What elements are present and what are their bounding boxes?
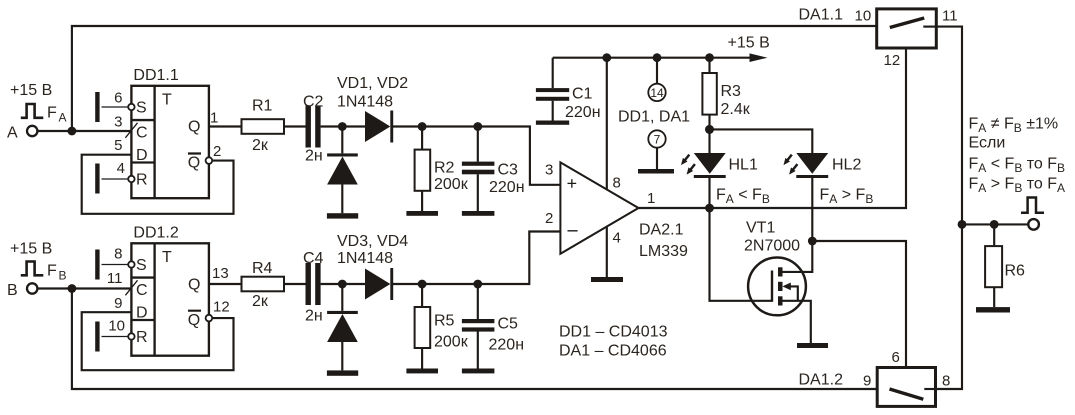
svg-text:S: S [136, 100, 147, 117]
svg-text:11: 11 [107, 270, 123, 287]
svg-text:Q: Q [188, 119, 200, 136]
svg-text:13: 13 [212, 265, 229, 282]
svg-text:10: 10 [108, 318, 125, 335]
svg-text:220н: 220н [565, 104, 601, 121]
svg-text:220н: 220н [489, 179, 525, 196]
svg-text:9: 9 [114, 295, 122, 312]
svg-text:3: 3 [545, 162, 553, 179]
svg-text:2к: 2к [252, 293, 269, 310]
svg-text:VT1: VT1 [746, 220, 775, 237]
svg-text:2н: 2н [305, 148, 323, 165]
svg-text:DD1.1: DD1.1 [133, 67, 178, 84]
svg-text:3: 3 [114, 114, 122, 131]
svg-text:T: T [162, 92, 172, 109]
svg-text:R2: R2 [434, 160, 455, 177]
svg-text:4: 4 [117, 160, 125, 177]
svg-text:9: 9 [863, 373, 871, 390]
svg-text:10: 10 [855, 8, 872, 25]
svg-text:R5: R5 [434, 313, 455, 330]
svg-text:B: B [7, 282, 18, 299]
svg-text:DA2.1: DA2.1 [639, 222, 684, 239]
svg-text:HL1: HL1 [729, 157, 758, 174]
svg-text:2: 2 [213, 143, 221, 160]
svg-text:DD1 – CD4013: DD1 – CD4013 [559, 324, 668, 341]
svg-text:S: S [136, 257, 147, 274]
svg-text:8: 8 [942, 373, 950, 390]
svg-text:+15 В: +15 В [728, 35, 770, 52]
svg-text:6: 6 [892, 349, 900, 366]
svg-text:VD1, VD2: VD1, VD2 [337, 75, 408, 92]
svg-text:R: R [136, 172, 148, 189]
svg-text:A: A [59, 111, 67, 125]
svg-text:Q: Q [188, 312, 200, 329]
svg-text:4: 4 [613, 230, 621, 247]
svg-text:+15 В: +15 В [10, 241, 52, 258]
svg-text:2к: 2к [252, 137, 269, 154]
svg-text:8: 8 [613, 175, 621, 192]
svg-text:D: D [136, 305, 148, 322]
svg-text:R4: R4 [252, 260, 273, 277]
svg-text:C3: C3 [498, 162, 519, 179]
svg-text:DD1.2: DD1.2 [133, 225, 178, 242]
svg-text:200к: 200к [434, 334, 469, 351]
svg-text:C: C [136, 282, 148, 299]
svg-text:DA1.2: DA1.2 [799, 372, 844, 389]
svg-text:2: 2 [545, 210, 553, 227]
svg-text:1N4148: 1N4148 [337, 250, 393, 267]
svg-text:F: F [47, 262, 57, 279]
svg-text:6: 6 [114, 90, 122, 107]
svg-text:11: 11 [942, 8, 958, 25]
svg-text:HL2: HL2 [832, 157, 861, 174]
svg-text:R: R [136, 329, 148, 346]
svg-text:12: 12 [884, 52, 901, 69]
svg-text:5: 5 [114, 137, 122, 154]
svg-text:1: 1 [210, 110, 218, 127]
svg-text:C: C [136, 125, 148, 142]
svg-text:2.4к: 2.4к [721, 101, 751, 118]
svg-text:A: A [7, 125, 18, 142]
svg-text:1N4148: 1N4148 [337, 94, 393, 111]
svg-text:R6: R6 [1005, 263, 1026, 280]
svg-text:220н: 220н [489, 337, 525, 354]
svg-text:C1: C1 [572, 86, 593, 103]
svg-text:2н: 2н [305, 307, 323, 324]
svg-text:7: 7 [654, 133, 661, 147]
svg-text:+15 В: +15 В [10, 82, 52, 99]
svg-text:C4: C4 [303, 250, 324, 267]
svg-text:FA > FB: FA > FB [820, 187, 874, 207]
svg-text:Q: Q [188, 277, 200, 294]
svg-text:1: 1 [647, 190, 655, 207]
svg-text:R3: R3 [721, 83, 742, 100]
svg-text:R1: R1 [252, 98, 273, 115]
svg-text:DA1.1: DA1.1 [799, 7, 844, 24]
svg-text:12: 12 [213, 299, 230, 316]
svg-text:14: 14 [650, 86, 664, 100]
svg-text:DA1 – CD4066: DA1 – CD4066 [559, 343, 667, 360]
svg-text:200к: 200к [434, 176, 469, 193]
svg-text:LM339: LM339 [639, 243, 688, 260]
svg-text:FA < FB: FA < FB [716, 187, 770, 207]
svg-text:DD1, DA1: DD1, DA1 [618, 109, 690, 126]
svg-text:B: B [59, 268, 67, 282]
svg-text:C5: C5 [498, 316, 519, 333]
svg-text:2N7000: 2N7000 [744, 238, 800, 255]
svg-text:Q: Q [188, 155, 200, 172]
svg-text:Если: Если [969, 135, 1006, 152]
svg-text:F: F [47, 105, 57, 122]
svg-text:VD3, VD4: VD3, VD4 [337, 233, 408, 250]
svg-text:D: D [136, 147, 148, 164]
svg-text:T: T [162, 249, 172, 266]
svg-text:8: 8 [114, 246, 122, 263]
svg-text:C2: C2 [303, 94, 324, 111]
